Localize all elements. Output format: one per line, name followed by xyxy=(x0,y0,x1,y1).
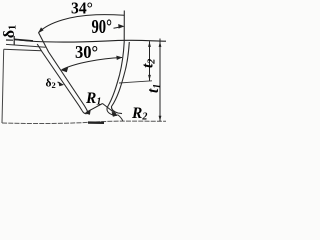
reference line thick left part xyxy=(14,39,33,41)
right piece foot continuation stroke xyxy=(118,115,123,121)
90 deg leader arrow xyxy=(114,26,124,28)
svg-text:90°: 90° xyxy=(92,16,113,37)
blade left line xyxy=(37,44,82,111)
blade tip curve R1 xyxy=(82,111,87,114)
delta1 dimension tick xyxy=(13,36,15,45)
t2 extension line xyxy=(119,81,152,83)
delta2 leader arrow xyxy=(58,82,61,83)
t2 dimension line xyxy=(149,41,151,80)
sheet top surface line xyxy=(6,44,46,47)
30 deg arc xyxy=(62,58,123,70)
svg-text:30°: 30° xyxy=(75,42,98,62)
blade right line xyxy=(39,33,90,115)
reference top line (table line) xyxy=(14,40,166,43)
30 arc right arrowhead xyxy=(116,56,122,60)
label 30deg xyxy=(75,42,98,62)
left edge of sheet xyxy=(2,49,4,123)
34 deg arc xyxy=(39,15,125,33)
34 arc arrowhead xyxy=(38,27,44,33)
bottom table line xyxy=(2,121,166,123)
bottom thick segment xyxy=(88,121,104,124)
right piece left edge (with vertical 90 deg reference above) xyxy=(107,11,124,116)
svg-text:34°: 34° xyxy=(71,0,93,18)
30 arc left arrowhead xyxy=(61,67,68,73)
delta1 bar xyxy=(6,39,13,41)
right piece right edge xyxy=(111,42,129,114)
paper background xyxy=(0,0,166,129)
R1 leader with two arrows xyxy=(87,104,103,113)
svg-text:δ2: δ2 xyxy=(46,78,56,91)
label 34deg xyxy=(71,0,93,18)
t1 dimension line xyxy=(159,39,161,122)
label 90deg xyxy=(92,16,113,37)
sheet lower strip line xyxy=(4,49,42,50)
